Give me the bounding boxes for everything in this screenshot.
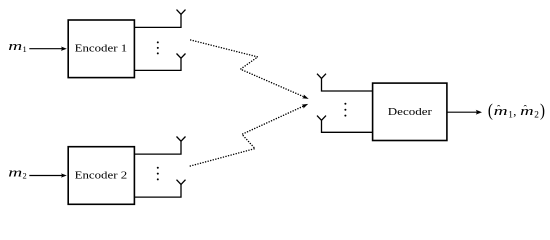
wire channel path encoder1 to decoder (dotted) <box>191 40 304 97</box>
node output label (m^1, m^2) <box>488 100 545 121</box>
wire decoder antenna feed bottom <box>322 120 373 132</box>
wire encoder2 antenna feed top <box>134 141 181 154</box>
antenna decoder bottom <box>317 116 326 121</box>
svg-text:ˆ: ˆ <box>497 105 501 116</box>
svg-text:Encoder 1: Encoder 1 <box>75 44 128 55</box>
arrowhead channel 2 <box>302 104 309 109</box>
arrowhead channel 1 <box>302 94 309 98</box>
node decoder antenna ellipsis <box>344 103 346 117</box>
svg-text:(: ( <box>488 100 493 121</box>
antenna encoder2 top <box>177 137 186 142</box>
svg-text:): ) <box>540 100 545 121</box>
svg-text:Encoder 2: Encoder 2 <box>75 170 128 181</box>
block Decoder <box>373 83 447 140</box>
wire encoder1 antenna feed bottom <box>134 58 181 70</box>
node encoder1 antenna ellipsis <box>157 41 159 54</box>
wire encoder2 antenna feed bottom <box>134 184 181 197</box>
wire m1 input arrow <box>29 47 67 51</box>
wire decoder antenna feed top <box>322 78 373 91</box>
wire encoder1 antenna feed top <box>134 14 181 27</box>
block Encoder 2 <box>68 147 134 205</box>
antenna encoder1 bottom <box>177 54 186 59</box>
wire m2 input arrow <box>29 173 67 177</box>
antenna encoder2 bottom <box>177 180 186 185</box>
node encoder2 antenna ellipsis <box>157 167 159 181</box>
svg-text:Decoder: Decoder <box>388 107 433 118</box>
wire decoder output arrow <box>447 110 482 115</box>
block Encoder 1 <box>68 20 134 78</box>
antenna encoder1 top <box>177 10 186 15</box>
svg-text:2: 2 <box>534 111 539 121</box>
antenna decoder top <box>317 74 326 79</box>
svg-text:ˆ: ˆ <box>524 105 528 116</box>
svg-text:,: , <box>513 105 516 119</box>
svg-text:m: m <box>494 104 508 118</box>
wire channel path encoder2 to decoder (dotted) <box>190 106 303 166</box>
